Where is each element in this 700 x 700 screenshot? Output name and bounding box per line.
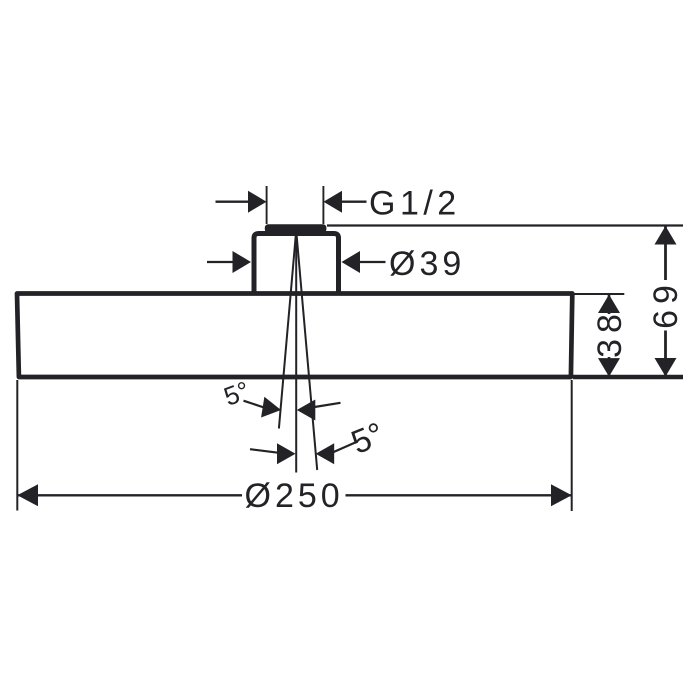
O250 dimension line left xyxy=(17,494,242,496)
69 dimension line lower xyxy=(664,331,667,377)
O39 dimension tail left xyxy=(207,261,234,263)
G1/2 extension line right xyxy=(322,186,324,224)
69 extension line top xyxy=(327,224,683,226)
spray angle line left xyxy=(279,231,296,429)
angle upper leader left xyxy=(244,401,265,408)
O39 dimension tail right xyxy=(360,261,386,263)
G1/2 arrow right xyxy=(324,191,343,213)
svg-text:G1/2: G1/2 xyxy=(369,185,461,223)
spray axis line xyxy=(295,231,297,473)
G1/2 dimension tail left xyxy=(216,201,250,203)
69 arrow up xyxy=(655,226,677,245)
69 extension line bottom xyxy=(573,375,683,380)
38 dimension line lower xyxy=(608,357,611,377)
38 arrow up xyxy=(598,295,620,314)
angle lower arrow left xyxy=(277,443,296,464)
thread cap xyxy=(265,224,327,233)
G1/2 dimension tail right xyxy=(342,201,367,203)
angle lower leader right xyxy=(333,442,356,452)
G1/2 extension line left xyxy=(266,186,268,224)
connector stub xyxy=(254,234,339,296)
angle lower arrow right xyxy=(316,443,335,464)
38 extension line top xyxy=(575,293,625,295)
69 dimension line upper xyxy=(664,226,667,280)
G1/2 arrow left xyxy=(248,191,267,213)
38 dimension line upper xyxy=(608,295,611,315)
O250 dimension line right xyxy=(346,494,572,496)
O39 arrow left xyxy=(233,251,252,273)
angle lower leader left xyxy=(250,449,279,453)
O250 extension line right xyxy=(571,380,573,511)
angle upper leader right xyxy=(315,403,341,407)
svg-text:69: 69 xyxy=(647,279,685,329)
O39 arrow right xyxy=(342,251,361,273)
O250 arrow left xyxy=(17,484,38,506)
O250 extension line left xyxy=(16,380,18,511)
angle upper arrow right xyxy=(297,400,316,421)
69 arrow down xyxy=(655,358,677,377)
angle upper arrow left xyxy=(261,397,283,421)
O250 arrow right xyxy=(551,484,572,506)
shower plate body xyxy=(17,294,572,378)
spray angle line right xyxy=(296,231,317,471)
svg-text:38: 38 xyxy=(591,308,629,358)
38 arrow down xyxy=(598,358,620,377)
svg-text:Ø250: Ø250 xyxy=(245,477,344,515)
svg-text:Ø39: Ø39 xyxy=(389,245,465,283)
